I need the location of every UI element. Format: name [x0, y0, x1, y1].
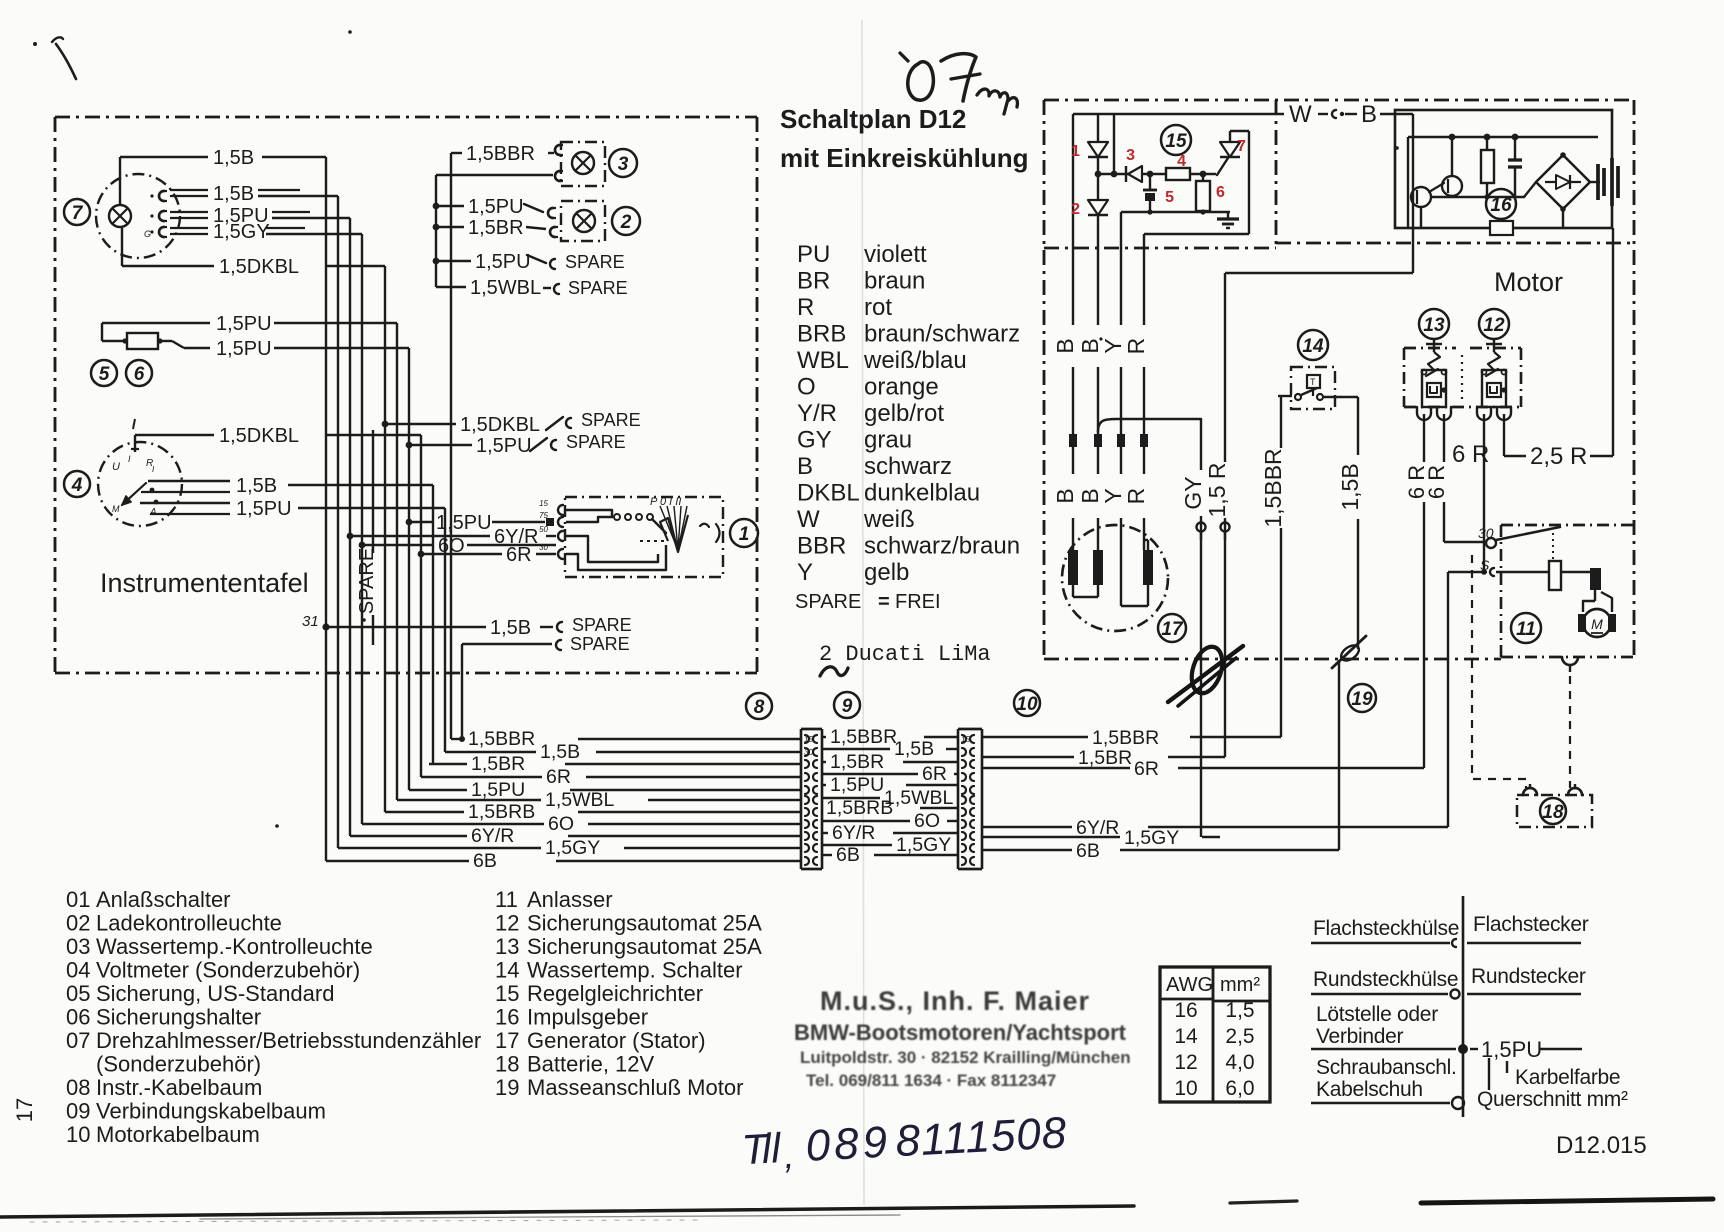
svg-text:B: B	[1052, 338, 1078, 353]
svg-text:15: 15	[495, 981, 519, 1006]
svg-text:1,5B: 1,5B	[1337, 463, 1363, 510]
svg-text:WBL: WBL	[797, 347, 849, 374]
svg-text:6B: 6B	[473, 850, 497, 872]
svg-text:1,5GY: 1,5GY	[213, 221, 270, 243]
svg-text:PU: PU	[797, 241, 830, 268]
svg-text:Y/R: Y/R	[797, 400, 837, 427]
svg-text:violett: violett	[864, 241, 927, 268]
svg-text:5: 5	[99, 364, 110, 385]
svg-text:1,5WBL: 1,5WBL	[470, 277, 541, 299]
svg-text:U: U	[112, 461, 120, 473]
svg-text:Voltmeter (Sonderzubehör): Voltmeter (Sonderzubehör)	[96, 958, 360, 983]
svg-text:19: 19	[495, 1075, 519, 1100]
svg-text:07: 07	[66, 1028, 90, 1053]
svg-text:SPARE: SPARE	[568, 278, 628, 298]
svg-text:Lötstelle oder: Lötstelle oder	[1316, 1003, 1438, 1026]
svg-text:O: O	[797, 374, 816, 401]
svg-text:gelb: gelb	[864, 559, 909, 586]
svg-text:Kabelschuh: Kabelschuh	[1316, 1078, 1423, 1101]
svg-text:2: 2	[1071, 201, 1080, 218]
svg-text:6R: 6R	[506, 544, 532, 566]
svg-text:15: 15	[1165, 131, 1187, 152]
svg-text:08: 08	[66, 1075, 90, 1100]
svg-text:Anlasser: Anlasser	[527, 887, 613, 912]
svg-text:SPARE: SPARE	[570, 634, 630, 654]
svg-text:SPARE: SPARE	[572, 615, 632, 635]
svg-text:1,5BRB: 1,5BRB	[468, 801, 535, 823]
svg-text:BRB: BRB	[797, 321, 846, 348]
svg-text:FREI: FREI	[895, 591, 941, 613]
svg-text:1,5PU: 1,5PU	[475, 251, 531, 273]
svg-text:1,5BBR: 1,5BBR	[1260, 448, 1286, 527]
svg-text:Verbinder: Verbinder	[1316, 1025, 1404, 1048]
svg-text:1,5WBL: 1,5WBL	[545, 789, 615, 811]
svg-text:M: M	[1591, 616, 1603, 632]
svg-text:18: 18	[495, 1052, 519, 1077]
svg-text:1,5GY: 1,5GY	[1124, 827, 1179, 849]
svg-text:1,5PU: 1,5PU	[476, 435, 532, 457]
svg-text:Drehzahlmesser/Betriebsstunden: Drehzahlmesser/Betriebsstundenzähler	[96, 1028, 481, 1053]
svg-text:1,5B: 1,5B	[213, 147, 254, 169]
svg-text:gelb/rot: gelb/rot	[864, 400, 944, 427]
svg-text:,: ,	[783, 1135, 795, 1176]
svg-text:Rundstecker: Rundstecker	[1471, 965, 1586, 988]
svg-text:A: A	[149, 507, 157, 518]
svg-text:braun/schwarz: braun/schwarz	[864, 321, 1020, 348]
svg-text:dunkelblau: dunkelblau	[864, 480, 980, 507]
svg-text:SPARE: SPARE	[565, 252, 625, 272]
svg-text:Querschnitt mm²: Querschnitt mm²	[1477, 1088, 1628, 1111]
svg-text:Instr.-Kabelbaum: Instr.-Kabelbaum	[96, 1075, 262, 1100]
svg-text:14: 14	[1302, 336, 1324, 357]
svg-text:12: 12	[1483, 315, 1505, 336]
svg-text:4,0: 4,0	[1225, 1051, 1254, 1074]
svg-text:1,5B: 1,5B	[894, 738, 934, 760]
svg-text:Verbindungskabelbaum: Verbindungskabelbaum	[96, 1099, 326, 1124]
svg-text:9: 9	[842, 696, 853, 717]
svg-text:6R: 6R	[546, 766, 571, 788]
svg-text:7: 7	[72, 203, 84, 224]
svg-text:6O: 6O	[548, 813, 574, 835]
svg-text:1,5BR: 1,5BR	[471, 753, 525, 775]
svg-text:11: 11	[1516, 619, 1536, 640]
svg-text:Tel. 069/811 1634 · Fax 811234: Tel. 069/811 1634 · Fax 8112347	[806, 1071, 1056, 1090]
svg-text:orange: orange	[864, 374, 939, 401]
svg-text:Y: Y	[797, 559, 813, 586]
svg-text:3: 3	[618, 154, 629, 175]
svg-text:1,5PU: 1,5PU	[236, 498, 292, 520]
svg-text:1,5BBR: 1,5BBR	[466, 143, 535, 165]
svg-text:6Y/R: 6Y/R	[1076, 817, 1119, 839]
svg-text:6B: 6B	[1076, 840, 1100, 862]
svg-text:Impulsgeber: Impulsgeber	[527, 1005, 648, 1030]
svg-text:Motorkabelbaum: Motorkabelbaum	[96, 1122, 260, 1147]
svg-text:Rundsteckhülse: Rundsteckhülse	[1313, 968, 1458, 991]
svg-text:Sicherung, US-Standard: Sicherung, US-Standard	[96, 981, 334, 1006]
svg-text:Sicherungshalter: Sicherungshalter	[96, 1005, 261, 1030]
svg-text:Sicherungsautomat 25A: Sicherungsautomat 25A	[527, 911, 762, 936]
svg-text:3: 3	[1126, 147, 1135, 164]
svg-text:6B: 6B	[836, 844, 860, 866]
svg-text:2 Ducati LiMa: 2 Ducati LiMa	[819, 642, 991, 667]
svg-text:17: 17	[495, 1028, 519, 1053]
svg-text:W: W	[1289, 101, 1312, 128]
svg-text:1,5PU: 1,5PU	[471, 779, 525, 801]
svg-text:R: R	[1123, 338, 1149, 355]
svg-text:19: 19	[1351, 689, 1373, 710]
svg-text:DKBL: DKBL	[797, 480, 860, 507]
svg-text:6O: 6O	[914, 810, 940, 832]
svg-text:2,5: 2,5	[1225, 1025, 1254, 1048]
svg-text:1,5BBR: 1,5BBR	[1092, 727, 1159, 749]
svg-text:13: 13	[495, 934, 519, 959]
svg-text:GY: GY	[1180, 476, 1206, 509]
svg-text:Generator (Stator): Generator (Stator)	[527, 1028, 706, 1053]
svg-text:mm²: mm²	[1220, 974, 1260, 996]
svg-text:BMW-Bootsmotoren/Yachtsport: BMW-Bootsmotoren/Yachtsport	[794, 1020, 1127, 1045]
svg-text:6: 6	[1216, 184, 1225, 201]
svg-text:P 0 I II: P 0 I II	[650, 496, 681, 508]
svg-text:mit Einkreiskühlung: mit Einkreiskühlung	[780, 143, 1029, 173]
svg-text:15: 15	[804, 735, 813, 744]
svg-text:M.u.S., Inh. F. Maier: M.u.S., Inh. F. Maier	[820, 986, 1090, 1016]
svg-text:2,5 R: 2,5 R	[1530, 443, 1587, 470]
svg-text:1,5BRB: 1,5BRB	[826, 797, 893, 819]
svg-text:T: T	[1310, 377, 1316, 387]
svg-text:Regelgleichrichter: Regelgleichrichter	[527, 981, 703, 1006]
svg-text:5: 5	[1165, 189, 1174, 206]
svg-text:1,5DKBL: 1,5DKBL	[219, 425, 299, 447]
svg-text:schwarz: schwarz	[864, 453, 952, 480]
svg-text:Anlaßschalter: Anlaßschalter	[96, 887, 231, 912]
svg-text:Masseanschluß Motor: Masseanschluß Motor	[527, 1075, 743, 1100]
svg-text:grau: grau	[864, 427, 912, 454]
svg-text:14: 14	[1174, 1025, 1198, 1048]
svg-text:SPARE: SPARE	[356, 548, 378, 614]
svg-text:Motor: Motor	[1494, 267, 1563, 297]
svg-text:Instrumententafel: Instrumententafel	[100, 568, 309, 598]
svg-text:6Y/R: 6Y/R	[832, 822, 875, 844]
svg-text:18: 18	[1542, 802, 1564, 823]
svg-text:BR: BR	[797, 268, 830, 295]
svg-text:15: 15	[961, 735, 970, 744]
svg-text:1,5B: 1,5B	[540, 741, 580, 763]
svg-text:4: 4	[71, 475, 83, 496]
svg-text:1,5DKBL: 1,5DKBL	[219, 256, 299, 278]
svg-text:1,5GY: 1,5GY	[896, 834, 951, 856]
svg-text:16: 16	[495, 1005, 519, 1030]
svg-text:1,5: 1,5	[1225, 999, 1254, 1022]
svg-text:1,5PU: 1,5PU	[830, 774, 884, 796]
svg-text:Sicherungsautomat 25A: Sicherungsautomat 25A	[527, 934, 762, 959]
svg-text:14: 14	[495, 958, 519, 983]
svg-text:13: 13	[1423, 315, 1445, 336]
svg-text:schwarz/braun: schwarz/braun	[864, 533, 1020, 560]
svg-text:1,5BBR: 1,5BBR	[830, 726, 897, 748]
svg-text:W: W	[797, 506, 820, 533]
svg-text:R: R	[1123, 488, 1149, 505]
svg-text:16: 16	[1174, 999, 1197, 1022]
svg-text:17: 17	[12, 1098, 37, 1122]
svg-text:1,5BR: 1,5BR	[468, 217, 524, 239]
svg-text:braun: braun	[864, 268, 925, 295]
svg-text:06: 06	[66, 1005, 90, 1030]
svg-text:=: =	[878, 591, 890, 613]
svg-text:1,5B: 1,5B	[490, 617, 531, 639]
svg-text:10: 10	[1174, 1077, 1197, 1100]
svg-text:weiß/blau: weiß/blau	[863, 347, 967, 374]
svg-text:15: 15	[539, 499, 548, 508]
svg-text:2: 2	[620, 212, 632, 233]
svg-text:G: G	[144, 229, 151, 239]
svg-text:6R: 6R	[922, 763, 947, 785]
svg-text:B: B	[797, 453, 813, 480]
svg-text:M: M	[112, 504, 120, 514]
svg-text:Flachsteckhülse: Flachsteckhülse	[1313, 917, 1459, 940]
svg-text:1: 1	[739, 524, 750, 545]
svg-text:11: 11	[495, 887, 518, 912]
svg-text:Luitpoldstr. 30 · 82152 Kraill: Luitpoldstr. 30 · 82152 Krailling/Münche…	[800, 1048, 1131, 1067]
svg-text:1,5PU: 1,5PU	[468, 196, 524, 218]
svg-text:6 R: 6 R	[1424, 465, 1449, 499]
svg-text:10: 10	[66, 1122, 90, 1147]
svg-text:(Sonderzubehör): (Sonderzubehör)	[96, 1052, 261, 1077]
svg-text:1,5B: 1,5B	[213, 183, 254, 205]
svg-text:75: 75	[539, 511, 548, 520]
svg-text:SPARE: SPARE	[581, 410, 641, 430]
svg-text:03: 03	[66, 934, 90, 959]
svg-text:Wassertemp.-Kontrolleuchte: Wassertemp.-Kontrolleuchte	[96, 934, 373, 959]
svg-text:09: 09	[66, 1099, 90, 1124]
svg-text:12: 12	[1174, 1051, 1197, 1074]
svg-text:1,5PU: 1,5PU	[216, 338, 272, 360]
svg-text:AWG: AWG	[1166, 974, 1213, 996]
svg-text:16: 16	[1490, 195, 1512, 216]
svg-text:R: R	[797, 294, 814, 321]
svg-text:04: 04	[66, 958, 90, 983]
svg-text:weiß: weiß	[863, 506, 915, 533]
svg-text:B: B	[1361, 101, 1377, 128]
svg-text:SPARE: SPARE	[566, 432, 626, 452]
svg-text:BBR: BBR	[797, 533, 846, 560]
svg-text:30: 30	[539, 543, 548, 552]
svg-text:1,5BBR: 1,5BBR	[468, 728, 535, 750]
svg-text:Flachstecker: Flachstecker	[1473, 913, 1589, 936]
svg-text:1,5PU: 1,5PU	[216, 313, 272, 335]
svg-text:6R: 6R	[1134, 758, 1159, 780]
svg-text:SPARE: SPARE	[795, 591, 861, 613]
svg-text:30: 30	[804, 748, 813, 757]
svg-text:02: 02	[66, 911, 90, 936]
svg-text:D12.015: D12.015	[1556, 1132, 1647, 1159]
svg-text:1,5B: 1,5B	[236, 475, 277, 497]
svg-text:6,0: 6,0	[1225, 1077, 1254, 1100]
svg-text:B: B	[1052, 488, 1078, 503]
svg-text:GY: GY	[797, 427, 832, 454]
svg-text:6: 6	[134, 364, 145, 385]
svg-text:1,5WBL: 1,5WBL	[884, 787, 954, 809]
svg-text:50: 50	[539, 525, 548, 534]
svg-text:12: 12	[495, 911, 519, 936]
svg-text:05: 05	[66, 981, 90, 1006]
svg-text:8111508: 8111508	[894, 1108, 1068, 1166]
svg-text:Schaltplan D12: Schaltplan D12	[780, 104, 966, 134]
svg-text:01: 01	[66, 887, 90, 912]
svg-text:8: 8	[754, 697, 765, 718]
svg-text:31: 31	[302, 613, 319, 630]
svg-text:Batterie, 12V: Batterie, 12V	[527, 1052, 655, 1077]
svg-text:7: 7	[1237, 138, 1246, 155]
svg-text:1: 1	[1071, 143, 1080, 160]
svg-text:1,5 R: 1,5 R	[1204, 463, 1230, 518]
svg-text:rot: rot	[864, 294, 892, 321]
svg-text:089: 089	[804, 1117, 892, 1170]
svg-text:Wassertemp. Schalter: Wassertemp. Schalter	[527, 958, 743, 983]
svg-text:1,5DKBL: 1,5DKBL	[460, 414, 540, 436]
svg-text:1,5BR: 1,5BR	[1078, 747, 1132, 769]
svg-text:1,5BR: 1,5BR	[830, 751, 884, 773]
svg-text:10: 10	[1016, 694, 1038, 715]
svg-text:Schraubanschl.: Schraubanschl.	[1316, 1056, 1457, 1079]
svg-text:Ladekontrolleuchte: Ladekontrolleuchte	[96, 911, 282, 936]
svg-text:Karbelfarbe: Karbelfarbe	[1515, 1066, 1620, 1089]
svg-text:6Y/R: 6Y/R	[471, 825, 514, 847]
svg-text:6 R: 6 R	[1452, 441, 1489, 468]
svg-text:1,5GY: 1,5GY	[545, 837, 600, 859]
svg-text:17: 17	[1161, 619, 1184, 640]
